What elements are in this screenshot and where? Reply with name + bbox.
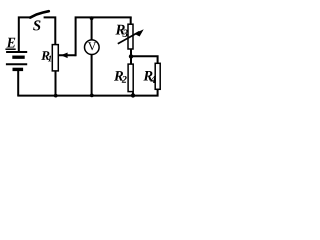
- wire: R2 bottom stub: [132, 92, 134, 95]
- wire: R3 bottom to junction: [130, 49, 132, 57]
- node: junction dot R3/R2/R4: [129, 54, 133, 58]
- wire: voltmeter bottom to bottom wire: [91, 55, 93, 96]
- wire: junction right to R4 corner and down: [131, 56, 158, 63]
- wire: R1 bottom to bottom wire: [55, 71, 57, 96]
- switch S (lever): [30, 11, 49, 17]
- wire: bottom horizontal: [17, 95, 158, 97]
- wire: wiper vertical up to top-right wire: [76, 17, 131, 55]
- label R1: [41, 51, 49, 60]
- node: junction dot voltmeter top: [90, 16, 94, 20]
- resistor R1 (rheostat body): [52, 45, 58, 71]
- resistor R4 (box): [155, 63, 160, 89]
- label R4: [143, 71, 152, 81]
- label E with underline: [7, 38, 16, 48]
- wire: junction to R2 top: [130, 56, 132, 64]
- wire: left vertical riser and top-left horizontal to switch left contact: [19, 17, 31, 51]
- R1 wiper arrow (points left at box): [59, 54, 76, 56]
- R3 diagonal arrow: [118, 32, 140, 44]
- node: dot at R2 bottom: [131, 93, 135, 97]
- wire: battery bottom to bottom wire: [17, 71, 19, 96]
- wire: R4 bottom stub: [157, 89, 159, 96]
- wire: R3 drop from top wire: [130, 17, 132, 24]
- resistor R3 (variable, box): [128, 24, 133, 49]
- wire: voltmeter drop: [91, 18, 93, 40]
- wire: switch right contact to corner, down to R1 top: [45, 17, 56, 44]
- label R3: [115, 25, 124, 35]
- label S: [33, 20, 40, 30]
- label R2: [114, 71, 123, 81]
- battery E (two cells: long thin and short thick plates): [6, 52, 27, 69]
- node: dot at R1 bottom: [54, 94, 58, 98]
- node: dot at voltmeter bottom: [90, 94, 94, 98]
- resistor R2 (box): [128, 64, 133, 92]
- voltmeter V (circle with V glyph): [85, 40, 100, 55]
